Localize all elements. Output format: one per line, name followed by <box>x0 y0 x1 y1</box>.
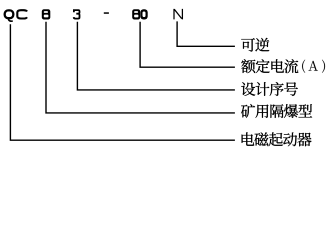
wire from 80 <box>140 22 235 67</box>
label magnetic starter 电磁起动器 <box>242 132 312 146</box>
model code digit 8 (of 80) <box>132 9 140 19</box>
wire from N <box>177 21 235 46</box>
model code letter N <box>174 9 182 20</box>
model code digit 3 <box>74 10 80 19</box>
hyphen separator <box>104 12 109 14</box>
letter Q tail <box>8 19 13 21</box>
model code digit 0 <box>140 9 147 19</box>
wire from QC <box>10 24 235 140</box>
model code letter Q <box>5 10 14 18</box>
label rated current 额定电流(A) <box>241 59 298 73</box>
model code digit 8 (design) <box>42 9 51 19</box>
label reversible 可逆 <box>241 38 269 52</box>
label unit (A) <box>302 60 325 73</box>
wire from 8 <box>46 22 235 113</box>
label design serial 设计序号 <box>241 82 298 96</box>
model code letter C <box>17 10 27 18</box>
wire from 3 <box>77 22 235 90</box>
label mine flameproof 矿用隔爆型 <box>241 104 312 118</box>
